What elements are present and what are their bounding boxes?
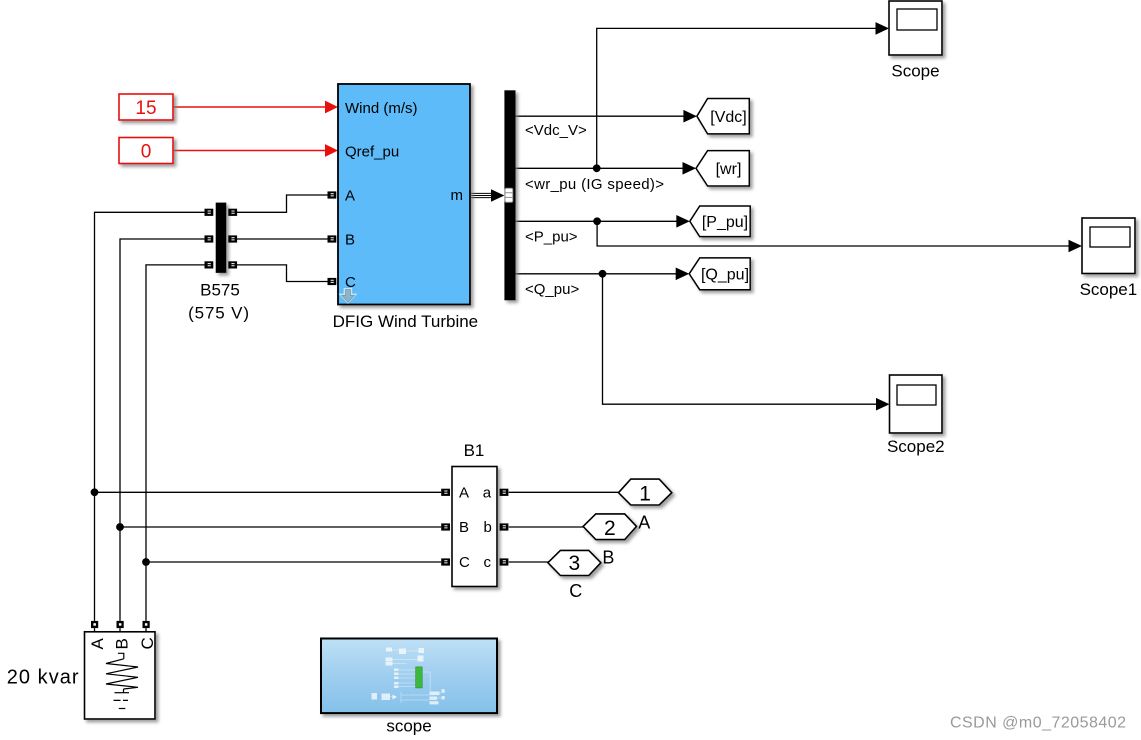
svg-text:15: 15 bbox=[135, 98, 156, 119]
svg-text:Scope: Scope bbox=[891, 61, 939, 80]
svg-text:DFIG Wind Turbine: DFIG Wind Turbine bbox=[333, 312, 479, 331]
svg-text:(575 V): (575 V) bbox=[188, 304, 250, 323]
svg-text:b: b bbox=[484, 519, 492, 536]
svg-text:1: 1 bbox=[639, 482, 651, 505]
svg-text:A: A bbox=[345, 188, 355, 205]
svg-text:a: a bbox=[483, 484, 492, 501]
svg-text:Scope1: Scope1 bbox=[1080, 280, 1138, 299]
svg-text:Qref_pu: Qref_pu bbox=[345, 143, 399, 160]
svg-text:CSDN @m0_72058402: CSDN @m0_72058402 bbox=[950, 715, 1127, 732]
svg-text:scope: scope bbox=[386, 717, 431, 736]
svg-text:A: A bbox=[88, 638, 107, 650]
svg-text:C: C bbox=[459, 554, 470, 571]
svg-text:<wr_pu (IG speed)>: <wr_pu (IG speed)> bbox=[525, 176, 664, 193]
svg-text:<P_pu>: <P_pu> bbox=[525, 228, 578, 245]
svg-text:[Vdc]: [Vdc] bbox=[710, 109, 746, 126]
svg-text:Scope2: Scope2 bbox=[887, 437, 945, 456]
svg-text:C: C bbox=[569, 581, 582, 601]
svg-text:B: B bbox=[345, 232, 355, 249]
svg-text:[wr]: [wr] bbox=[716, 161, 742, 178]
svg-text:3: 3 bbox=[569, 552, 581, 575]
svg-text:[P_pu]: [P_pu] bbox=[702, 214, 748, 231]
svg-text:20 kvar: 20 kvar bbox=[7, 667, 80, 689]
svg-text:B: B bbox=[459, 519, 469, 536]
svg-text:B: B bbox=[602, 548, 614, 568]
svg-text:B1: B1 bbox=[464, 441, 485, 460]
svg-text:B: B bbox=[113, 638, 132, 649]
svg-text:0: 0 bbox=[141, 141, 152, 162]
svg-text:Wind (m/s): Wind (m/s) bbox=[345, 100, 418, 117]
svg-text:<Vdc_V>: <Vdc_V> bbox=[525, 122, 587, 139]
svg-text:c: c bbox=[484, 554, 492, 571]
svg-text:<Q_pu>: <Q_pu> bbox=[525, 281, 579, 298]
svg-text:B575: B575 bbox=[200, 280, 240, 299]
svg-text:2: 2 bbox=[604, 517, 616, 540]
svg-text:C: C bbox=[138, 637, 157, 649]
svg-text:[Q_pu]: [Q_pu] bbox=[701, 267, 749, 284]
svg-text:A: A bbox=[459, 484, 469, 501]
svg-text:A: A bbox=[638, 513, 650, 533]
svg-text:m: m bbox=[451, 187, 464, 204]
